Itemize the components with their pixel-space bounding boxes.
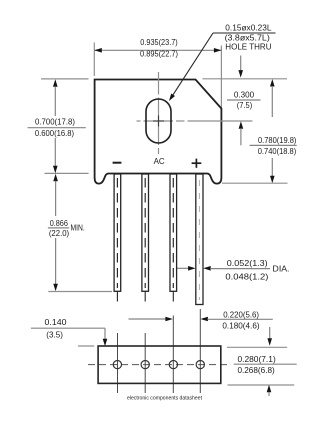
svg-text:0.740(18.8): 0.740(18.8) — [258, 146, 297, 156]
svg-text:MIN.: MIN. — [71, 223, 85, 233]
svg-text:0.935(23.7): 0.935(23.7) — [140, 37, 178, 47]
svg-text:0.780(19.8): 0.780(19.8) — [258, 135, 297, 145]
svg-text:0.15øx0.23L: 0.15øx0.23L — [225, 23, 271, 33]
svg-text:0.600(16.8): 0.600(16.8) — [35, 128, 74, 138]
svg-text:(22.0): (22.0) — [49, 228, 69, 238]
svg-text:(3.5): (3.5) — [46, 330, 63, 340]
svg-text:HOLE THRU: HOLE THRU — [225, 41, 271, 51]
svg-text:0.052(1.3): 0.052(1.3) — [227, 258, 268, 268]
svg-text:0.268(6.8): 0.268(6.8) — [237, 365, 274, 375]
svg-text:DIA.: DIA. — [273, 264, 290, 274]
svg-text:0.895(22.7): 0.895(22.7) — [140, 48, 178, 58]
svg-text:0.048(1.2): 0.048(1.2) — [225, 272, 268, 282]
svg-text:0.280(7.1): 0.280(7.1) — [237, 354, 275, 364]
svg-text:electronic components datashee: electronic components datasheet — [127, 396, 202, 402]
svg-text:0.700(17.8): 0.700(17.8) — [35, 117, 75, 127]
svg-text:0.300: 0.300 — [234, 90, 255, 100]
svg-text:0.866: 0.866 — [50, 218, 68, 228]
svg-text:0.180(4.6): 0.180(4.6) — [222, 321, 259, 331]
svg-text:0.140: 0.140 — [45, 317, 67, 327]
svg-text:(7.5): (7.5) — [237, 100, 253, 110]
svg-text:AC: AC — [154, 156, 165, 166]
svg-text:0.220(5.6): 0.220(5.6) — [223, 310, 259, 320]
